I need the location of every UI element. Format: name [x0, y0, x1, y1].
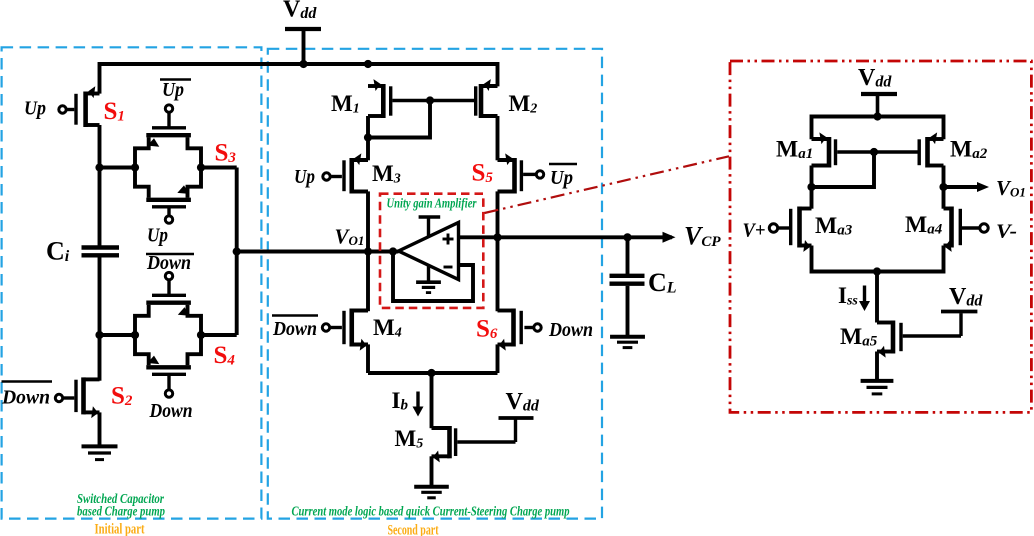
output arrow VCP — [663, 232, 676, 243]
wire: tail down to Ma5 — [875, 272, 879, 323]
wire: node A down to Ci — [98, 168, 102, 246]
wire: M2 drain to S5 source — [496, 116, 500, 160]
node: mid column junction — [233, 247, 241, 255]
wire: Ma5 gate lead to Vdd — [903, 334, 961, 337]
svg-text:based Charge pump: based Charge pump — [77, 504, 165, 519]
label Up-bar (S3 top gate) — [160, 78, 191, 81]
wire: tail down to M5 drain — [430, 373, 434, 428]
wire: VCP line to CL — [626, 237, 630, 274]
annotation box: Unity gain Amplifier (red dashed) — [380, 194, 483, 308]
wire: CL to ground — [626, 286, 630, 335]
wire: diode connection node C to gates — [368, 101, 430, 138]
transistor Ma5 (NMOS current source) — [891, 321, 896, 354]
wire: feedback loop output to minus input — [393, 252, 473, 302]
transmission gate S4 (top device, gate Down-bar) — [135, 305, 149, 335]
transistor M2 (PMOS mirror) — [479, 84, 484, 118]
ground (below M5) — [414, 485, 449, 489]
wire: plus input to VCP line — [459, 235, 673, 239]
node: S3 right port — [197, 163, 205, 171]
svg-text:Up: Up — [162, 79, 184, 101]
node: tail junction (amplifier) — [873, 267, 881, 275]
transmission gate S3 (top device, gate Up-bar) — [135, 137, 149, 167]
transistor M1 (PMOS mirror, diode connected) — [381, 84, 386, 118]
transistor Ma3 (NMOS, input V+) — [797, 207, 802, 248]
transistor S5 (PMOS, gate Up-bar) — [512, 158, 517, 194]
svg-text:Unity gain Amplifier: Unity gain Amplifier — [387, 196, 478, 211]
node: top bus junction — [873, 112, 881, 120]
power symbol Vdd (amplifier top) — [861, 92, 897, 96]
svg-text:Down: Down — [548, 319, 593, 341]
op-amp ground — [427, 266, 430, 281]
wire: initial part output to VO1 node — [237, 250, 368, 254]
wire: Ma1-Ma2 gate lead — [837, 150, 917, 153]
wire: amplifier top bus — [812, 117, 944, 140]
wire: M4 source to tail bus — [366, 344, 370, 373]
node B junction (Ci/S2/S4) — [95, 331, 103, 339]
wire: S2 source to ground — [98, 412, 102, 444]
transistor S1 (PMOS switch, gate Up) — [83, 92, 88, 128]
svg-text:Up: Up — [24, 98, 46, 120]
wire: S6 source to tail bus — [496, 344, 500, 373]
svg-text:V-: V- — [996, 221, 1017, 243]
svg-text:Up: Up — [294, 166, 315, 188]
label Down-bar (S2 gate) — [2, 380, 53, 383]
power symbol Vdd (Ma5 gate) — [941, 310, 977, 314]
transistor Ma1 (PMOS) — [827, 137, 832, 168]
node: gate junction (amplifier) — [870, 148, 878, 156]
node: feedback tap on output — [389, 247, 397, 255]
svg-text:Current mode logic based quick: Current mode logic based quick Current-S… — [292, 504, 570, 519]
transistor M3 (PMOS, gate Up) — [366, 138, 370, 161]
wire: M3 drain down to VO1 node — [366, 191, 370, 251]
op-amp U1 (unity gain amplifier) triangle — [399, 223, 459, 280]
svg-text:Down: Down — [272, 318, 317, 340]
capacitor Ci — [82, 245, 120, 249]
transistor M4 (NMOS, gate Down-bar) — [366, 252, 370, 312]
svg-text:Initial part: Initial part — [95, 522, 145, 536]
region box: Switched Capacitor based Charge pump (initial part) — [2, 47, 262, 518]
wire: M5 source to ground — [430, 456, 434, 485]
node: tail junction — [427, 369, 435, 377]
wire: S3 output to mid column — [201, 166, 237, 170]
wire: gate to Ma1 drain (diode connection) — [812, 152, 875, 187]
wire: M5 gate lead to Vdd — [457, 440, 515, 443]
wire: S1 drain down to node A — [98, 125, 102, 168]
wire: S3/S4 output column — [235, 168, 239, 336]
wire: Ma2 drain column — [942, 166, 946, 209]
svg-text:Up: Up — [147, 225, 168, 247]
node C junction (M1 drain / M3 source) — [364, 133, 372, 141]
svg-text:Second part: Second part — [388, 523, 439, 536]
label Down-bar (M4 gate) — [272, 314, 318, 317]
wire: M1/M2 gate lead — [392, 99, 474, 102]
ground (below S2) — [82, 444, 118, 448]
op-amp power stem — [419, 215, 441, 219]
op-amp minus input sign — [444, 266, 453, 269]
node: M1 source junction on bus — [364, 60, 372, 68]
region box: Current mode logic quick Current-Steering Charge pump (second part) — [268, 49, 602, 519]
capacitor CL — [610, 274, 645, 278]
wire: S4 output to mid column — [201, 333, 237, 337]
ground (amplifier) — [861, 379, 894, 383]
node: CL tap junction — [623, 233, 631, 241]
output arrow VO1 (amplifier) — [944, 185, 980, 189]
wire: Ci to node B — [98, 258, 102, 336]
svg-text:Down: Down — [146, 252, 191, 274]
node: S4 right port — [197, 331, 205, 339]
power symbol Vdd (M5 gate) — [499, 416, 534, 420]
transistor Ma4 (NMOS, input V-) — [949, 207, 954, 248]
svg-text:Down: Down — [1, 387, 50, 409]
wire: VO1 to op-amp output — [368, 250, 399, 254]
wire: node B to S4 left port — [100, 333, 136, 337]
transmission gate S3 (bottom device, gate Up) — [135, 168, 149, 198]
wire: top Vdd bus from S1 to M2 — [100, 64, 498, 94]
transistor Ma2 (PMOS) — [925, 137, 930, 168]
wire: S5 drain down to VCP line — [496, 191, 500, 237]
wire: M1 drain to node C — [366, 116, 370, 138]
node VO1 junction — [364, 247, 372, 255]
wire: amplifier tail bus — [812, 246, 944, 272]
leader line to amplifier detail box — [485, 156, 730, 213]
node: Vdd stem junction — [299, 60, 307, 68]
power symbol Vdd (top rail) — [285, 27, 321, 31]
svg-text:Up: Up — [550, 167, 573, 189]
wire: Ma5 source to ground — [875, 352, 879, 380]
ground (below CL) — [610, 335, 645, 339]
transistor S6 (NMOS, gate Down) — [496, 237, 500, 311]
node A junction (S1/Ci/S3) — [95, 163, 103, 171]
transmission gate S4 (bottom device, gate Down) — [135, 335, 149, 365]
transistor M5 (NMOS current source) — [447, 426, 452, 458]
transistor S2 (NMOS switch, gate Down-bar) — [98, 335, 102, 381]
op-amp plus input sign — [443, 238, 454, 241]
label Down-bar (S4 top gate) — [146, 253, 194, 256]
node: Ma1 drain junction — [807, 183, 815, 191]
wire: node A to S3 left port — [100, 166, 136, 170]
annotation box: amplifier detail (red dash-dot) — [730, 61, 1031, 412]
wire: tail bus M4-S6 — [368, 371, 498, 375]
node: VCP junction at S5/S6 column — [493, 233, 501, 241]
node: gate junction — [426, 96, 434, 104]
svg-text:Down: Down — [149, 400, 193, 422]
wire: Ma1 drain column — [810, 166, 814, 209]
svg-text:V+: V+ — [743, 220, 766, 242]
label Up-bar (S5 gate) — [549, 163, 577, 166]
node: Ma2 drain / VO1 output junction — [939, 183, 947, 191]
